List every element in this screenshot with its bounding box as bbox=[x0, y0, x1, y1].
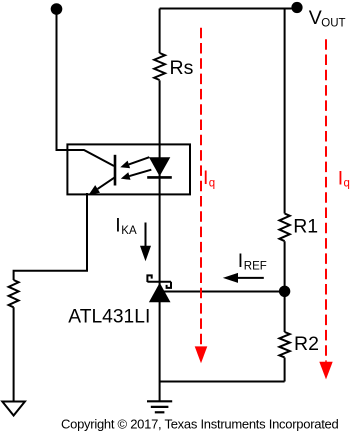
svg-text:q: q bbox=[344, 178, 350, 190]
svg-text:q: q bbox=[209, 177, 215, 189]
svg-text:Copyright © 2017, Texas Instru: Copyright © 2017, Texas Instruments Inco… bbox=[61, 417, 339, 432]
svg-text:Rs: Rs bbox=[170, 57, 194, 79]
svg-text:I: I bbox=[238, 250, 243, 272]
svg-text:I: I bbox=[338, 168, 343, 190]
svg-text:V: V bbox=[309, 7, 322, 29]
svg-text:R1: R1 bbox=[293, 216, 318, 238]
svg-text:OUT: OUT bbox=[321, 18, 345, 30]
svg-text:R2: R2 bbox=[294, 333, 319, 355]
svg-text:KA: KA bbox=[121, 225, 137, 237]
svg-text:I: I bbox=[115, 214, 120, 236]
svg-text:ATL431LI: ATL431LI bbox=[68, 306, 150, 328]
svg-text:REF: REF bbox=[244, 261, 267, 273]
svg-text:I: I bbox=[203, 167, 208, 189]
